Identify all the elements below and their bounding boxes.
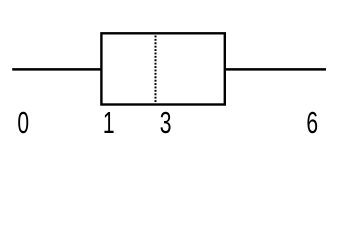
svg-text:6: 6	[306, 105, 318, 140]
svg-text:1: 1	[103, 105, 115, 140]
svg-text:0: 0	[17, 105, 29, 140]
svg-text:3: 3	[160, 105, 172, 140]
